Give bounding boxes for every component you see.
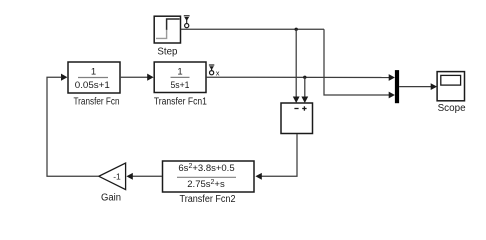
- svg-text:-1: -1: [113, 171, 121, 181]
- junction node on Transfer Fcn1 wire: [303, 76, 306, 79]
- test point badge at Transfer Fcn1 output: [209, 65, 220, 78]
- wire Sum output down and left to Transfer Fcn2: [255, 134, 297, 180]
- test point badge at Step output: [184, 16, 190, 28]
- svg-text:6s2+3.8s+0.5: 6s2+3.8s+0.5: [178, 163, 234, 174]
- wire branch corner down and right to Mux lower input: [324, 29, 395, 98]
- arrowhead into Transfer Fcn: [61, 74, 67, 81]
- mux bar: [395, 70, 399, 103]
- svg-text:1: 1: [177, 67, 182, 78]
- wire Mux output to Scope: [399, 83, 437, 90]
- transfer function block Transfer Fcn2: [163, 161, 255, 192]
- step source block Step: [154, 16, 180, 43]
- wire Transfer Fcn1 output to Mux upper input: [206, 74, 395, 81]
- sum block: [281, 103, 313, 134]
- wire Transfer Fcn to Transfer Fcn1: [121, 74, 154, 81]
- svg-text:x: x: [216, 69, 220, 78]
- transfer function block Transfer Fcn: [68, 62, 120, 93]
- wire Step output to branch corner: [181, 28, 324, 30]
- junction node on Step wire: [295, 28, 298, 31]
- wire junction down to Sum plus input: [301, 77, 308, 103]
- svg-text:Gain: Gain: [101, 193, 121, 204]
- wire Transfer Fcn2 output to Gain: [126, 173, 162, 180]
- scope block Scope: [437, 72, 464, 101]
- svg-text:Transfer Fcn2: Transfer Fcn2: [180, 194, 236, 205]
- feedback wire Gain output left, up, into Transfer Fcn: [47, 77, 99, 176]
- svg-text:Scope: Scope: [438, 103, 466, 114]
- svg-text:2.75s2+s: 2.75s2+s: [187, 179, 225, 190]
- svg-text:Step: Step: [157, 47, 177, 58]
- svg-text:Transfer Fcn1: Transfer Fcn1: [154, 97, 207, 108]
- svg-text:1: 1: [91, 67, 96, 78]
- wire junction down to Sum minus input: [293, 29, 300, 103]
- transfer function block Transfer Fcn1: [154, 62, 206, 93]
- svg-text:5s+1: 5s+1: [171, 80, 190, 91]
- svg-text:Transfer Fcn: Transfer Fcn: [74, 97, 120, 108]
- gain block Gain: [99, 163, 126, 190]
- svg-text:0.05s+1: 0.05s+1: [75, 80, 110, 91]
